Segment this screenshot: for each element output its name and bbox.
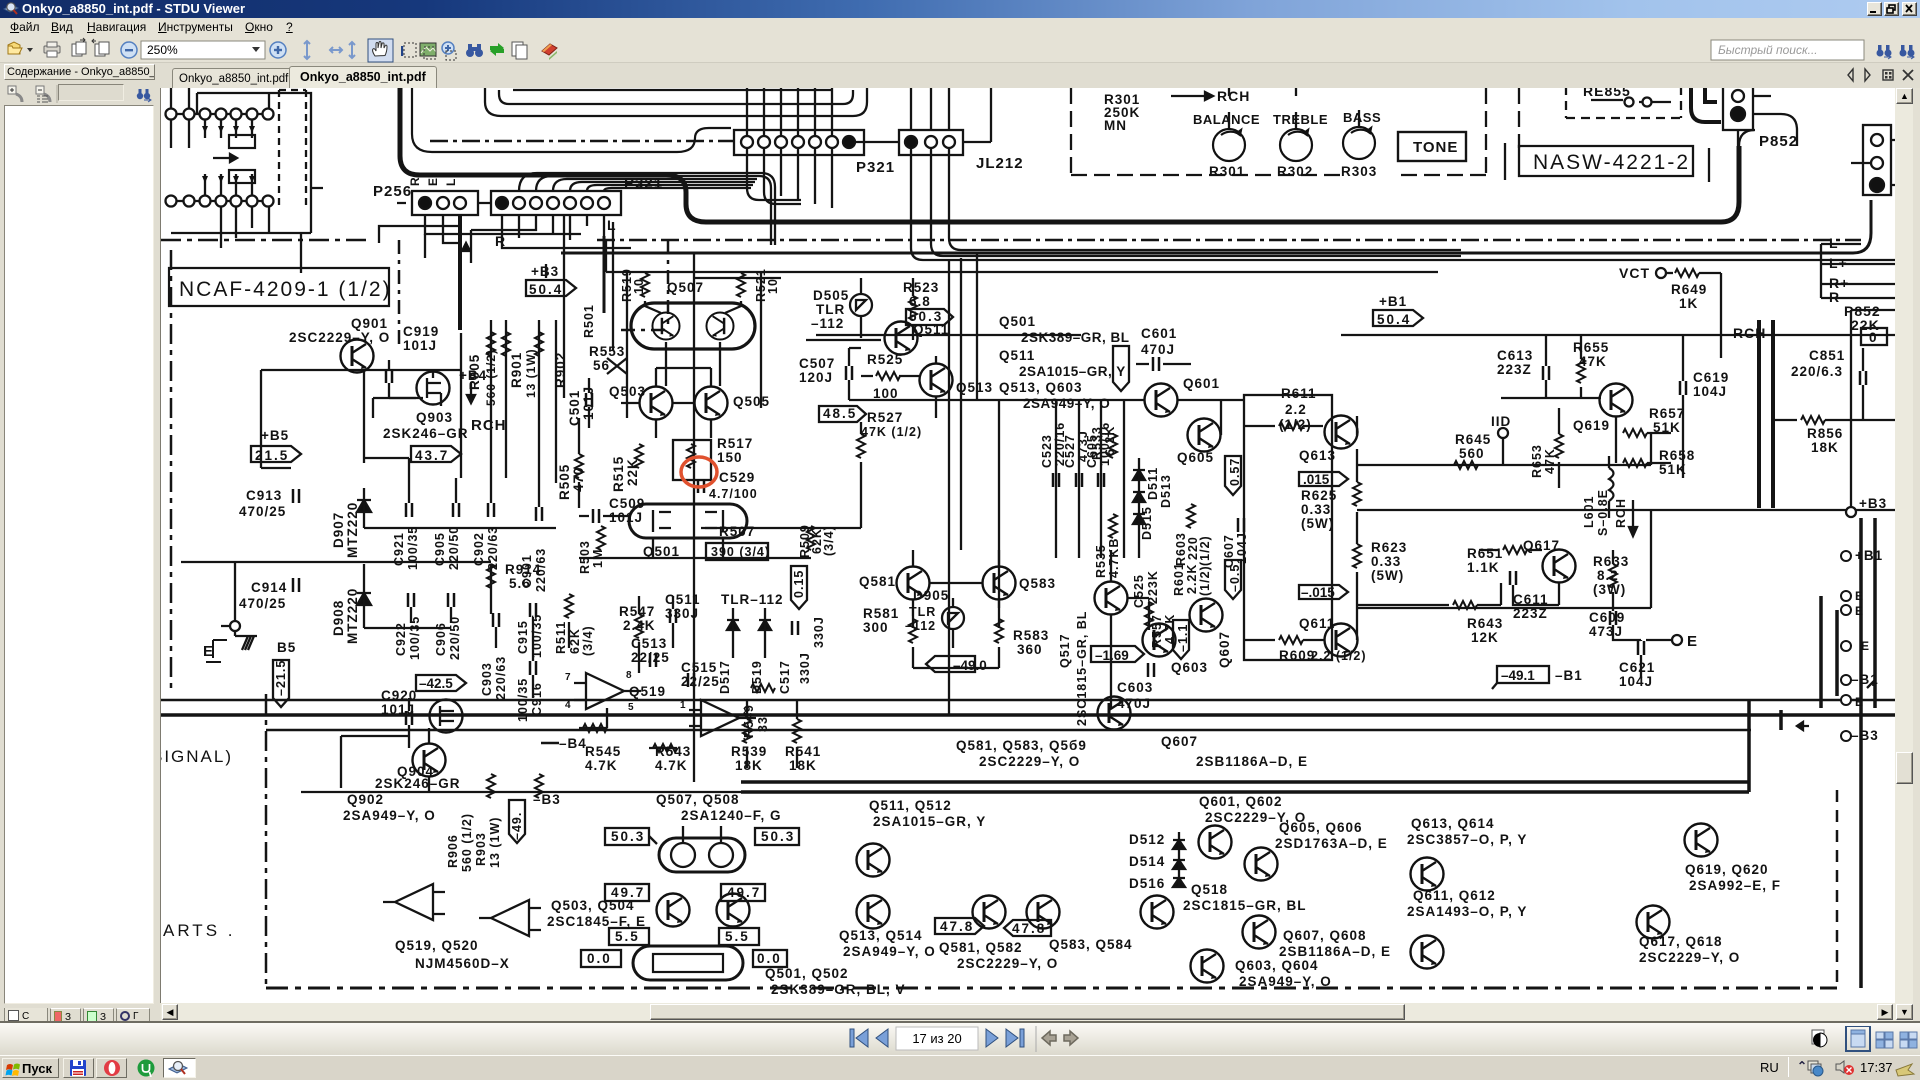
transistor Q903 (FET) <box>417 372 450 405</box>
resistor R549 <box>751 684 775 692</box>
resistor R545 <box>583 724 607 732</box>
svg-text:4.7K: 4.7K <box>1163 614 1177 644</box>
flag -49 vertical <box>509 800 525 843</box>
svg-text:104J: 104J <box>1235 532 1249 564</box>
flag 50.3 legend <box>605 828 649 845</box>
svg-text:101J: 101J <box>609 510 643 525</box>
VCT node and R649 <box>1656 268 1666 278</box>
svg-text:R507: R507 <box>719 524 755 539</box>
diode D517 <box>727 608 739 658</box>
transistor Q611 <box>1325 624 1358 657</box>
svg-text:–B4: –B4 <box>559 736 587 751</box>
svg-text:D516: D516 <box>1129 876 1165 891</box>
resistor R511 <box>565 594 573 618</box>
wire: thick main bus from preamp <box>400 86 1739 222</box>
capacitor C601 <box>1153 357 1159 371</box>
svg-text:VCT: VCT <box>1619 265 1650 281</box>
horizontal scrollbar <box>161 1003 1895 1021</box>
svg-text:E: E <box>1855 604 1864 618</box>
svg-text:Q902: Q902 <box>347 792 384 807</box>
svg-text:C913: C913 <box>246 488 282 503</box>
+B4 arrow <box>467 383 475 403</box>
svg-text:P321: P321 <box>856 159 895 176</box>
flag 1.69 vertical <box>1113 346 1129 391</box>
svg-text:R505: R505 <box>557 464 572 500</box>
capacitor C919 <box>386 369 392 383</box>
transistor Q583 <box>983 567 1016 600</box>
resistor R557 <box>1145 602 1153 626</box>
node +B3 <box>1846 507 1856 517</box>
wire: feedback row <box>806 340 999 608</box>
svg-text:4.7/100: 4.7/100 <box>709 487 758 501</box>
oval Q507 pair <box>631 303 755 349</box>
flag 390 box <box>706 543 768 560</box>
svg-text:Быстрый поиск...: Быстрый поиск... <box>1718 43 1818 57</box>
oval Q501 legend <box>633 946 743 980</box>
transistor Q601 <box>1145 384 1178 417</box>
svg-text:BASS: BASS <box>1343 110 1381 125</box>
transistor Q605 <box>1188 419 1221 452</box>
node circles right edge <box>1841 551 1851 741</box>
resistor R519 <box>641 273 649 297</box>
resistor R527 <box>857 434 865 458</box>
capacitor C523 <box>1053 473 1059 487</box>
diode D519 <box>759 608 771 658</box>
svg-text:C507: C507 <box>799 356 835 371</box>
svg-text:2SC3857–O, P, Y: 2SC3857–O, P, Y <box>1407 832 1527 847</box>
svg-text:R906: R906 <box>446 834 460 868</box>
resistor R914 <box>487 564 495 588</box>
capacitor C914 <box>293 578 299 592</box>
printer <box>44 46 60 53</box>
node E <box>230 621 240 631</box>
thick wires to P852 <box>1691 86 1721 122</box>
legend mid transistors <box>857 844 890 877</box>
svg-text:0.57: 0.57 <box>1228 458 1242 486</box>
svg-text:E: E <box>1861 639 1870 653</box>
svg-text:120J: 120J <box>799 370 833 385</box>
svg-text:Q617, Q618: Q617, Q618 <box>1639 934 1723 949</box>
diode chain D511 D513 D515 <box>1133 458 1145 558</box>
fit icons <box>304 41 355 59</box>
transistor Q607r <box>1190 599 1223 632</box>
resistor R901 <box>502 332 510 356</box>
LED D905 <box>942 607 964 629</box>
resistor R856 <box>1801 416 1825 424</box>
capacitor C619 <box>1680 381 1686 395</box>
vertical scrollbar <box>1895 88 1913 1021</box>
capacitor C902 <box>488 503 494 517</box>
svg-text:L: L <box>444 178 458 186</box>
label RCH box right <box>1759 320 1773 508</box>
svg-text:–B1: –B1 <box>1851 672 1879 687</box>
svg-text:Q603: Q603 <box>1171 660 1208 675</box>
oval Q501 FET pair <box>629 504 747 538</box>
capacitor C517 <box>792 621 798 635</box>
flag 0.15 vertical <box>791 566 807 609</box>
capacitor C913 <box>293 489 299 503</box>
connector P256 <box>412 191 478 215</box>
svg-text:22/25: 22/25 <box>681 674 720 689</box>
svg-text:C515: C515 <box>681 660 717 675</box>
wire: R653 <box>1558 408 1560 488</box>
bottom long rails <box>161 699 1896 701</box>
svg-text:R903: R903 <box>474 832 488 866</box>
svg-text:104J: 104J <box>1619 674 1653 689</box>
resistor R541 <box>793 719 801 743</box>
svg-text:MTZ220: MTZ220 <box>345 588 360 644</box>
svg-text:C501: C501 <box>567 390 582 426</box>
svg-text:.015: .015 <box>1303 472 1330 487</box>
svg-text:SIGNAL): SIGNAL) <box>161 747 233 766</box>
resistor R543 <box>653 744 677 752</box>
svg-text:0.0: 0.0 <box>587 951 612 966</box>
svg-text:+B3: +B3 <box>1859 496 1887 511</box>
svg-text:100/35: 100/35 <box>406 526 420 570</box>
opamp legend 2 <box>479 900 541 936</box>
flag -42.5 <box>416 675 466 691</box>
transistor Q503 <box>640 387 673 420</box>
wire: left ground rail <box>181 562 491 626</box>
svg-text:D517: D517 <box>718 660 732 694</box>
wire: thin bus above <box>412 86 731 152</box>
svg-text:49.7: 49.7 <box>727 885 761 900</box>
svg-text:2SA949–Y, O: 2SA949–Y, O <box>1239 974 1332 989</box>
svg-text:R625: R625 <box>1301 488 1337 503</box>
svg-text:100/35: 100/35 <box>516 678 530 722</box>
flag -49.1 <box>1497 666 1549 683</box>
transistor Q603r <box>1143 624 1176 657</box>
svg-text:2SA1240–F, G: 2SA1240–F, G <box>681 808 782 823</box>
svg-text:–42.5: –42.5 <box>419 676 453 691</box>
svg-text:TLR: TLR <box>816 302 845 317</box>
svg-text:2SA949–Y, O: 2SA949–Y, O <box>1023 396 1110 411</box>
resistor R625 <box>1353 482 1361 506</box>
capacitor C621 <box>1638 641 1644 655</box>
svg-text:2SA1493–O, P, Y: 2SA1493–O, P, Y <box>1407 904 1527 919</box>
right output stage Q617 <box>1543 550 1576 583</box>
right binoculars <box>1877 45 1892 59</box>
svg-text:R533: R533 <box>1090 426 1104 460</box>
svg-text:2SB1186A–D, E: 2SB1186A–D, E <box>1279 944 1391 959</box>
svg-text:D512: D512 <box>1129 832 1165 847</box>
wires from P321 curving right <box>519 173 612 191</box>
svg-text:C920: C920 <box>381 688 417 703</box>
zoom region <box>442 42 454 54</box>
resistor in matrix upper <box>229 135 255 148</box>
svg-text:+B1: +B1 <box>1379 294 1407 309</box>
svg-text:R914: R914 <box>505 562 541 577</box>
svg-text:S–0.8E: S–0.8E <box>1596 489 1610 536</box>
svg-text:250%: 250% <box>147 43 178 57</box>
zoom out <box>121 42 137 58</box>
svg-text:2SB1186A–D, E: 2SB1186A–D, E <box>1196 754 1308 769</box>
svg-text:Q581: Q581 <box>859 574 896 589</box>
svg-text:R645: R645 <box>1455 432 1491 447</box>
svg-text:Q611: Q611 <box>1299 616 1335 631</box>
zoom in <box>270 42 286 58</box>
resistor R581 <box>909 619 917 643</box>
flag 48.5 <box>819 406 866 422</box>
svg-text:2SK246–GR: 2SK246–GR <box>375 776 461 791</box>
svg-text:100/35: 100/35 <box>408 616 422 660</box>
wire: L line down from connector <box>563 215 565 398</box>
flag 0.0 b <box>753 950 787 967</box>
svg-text:Q583: Q583 <box>1019 576 1056 591</box>
svg-text:330J: 330J <box>798 652 812 684</box>
svg-text:5: 5 <box>628 702 635 713</box>
svg-text:2SA1015–GR, Y: 2SA1015–GR, Y <box>873 814 986 829</box>
eraser red <box>542 44 557 55</box>
svg-text:C607: C607 <box>1222 534 1236 568</box>
svg-text:R511: R511 <box>554 621 568 654</box>
svg-text:C915: C915 <box>516 620 530 654</box>
svg-text:2SC2229–Y, O: 2SC2229–Y, O <box>957 956 1058 971</box>
resistor R547 <box>635 614 643 638</box>
svg-text:47.8: 47.8 <box>940 919 974 934</box>
svg-text:Q581, Q582: Q581, Q582 <box>939 940 1023 955</box>
capacitor C515 <box>688 673 694 687</box>
connector P852 <box>1723 85 1753 130</box>
wires up from P321 top <box>747 86 832 136</box>
top nested rect bottoms (display border) <box>485 86 867 116</box>
flag -1.69 <box>1091 646 1144 662</box>
svg-text:JL212: JL212 <box>976 155 1024 172</box>
svg-text:50.3: 50.3 <box>611 829 645 844</box>
capacitor C905 <box>453 503 459 517</box>
svg-text:+B5: +B5 <box>261 428 289 443</box>
resistor R658 <box>1623 459 1647 467</box>
svg-text:Q505: Q505 <box>733 394 770 409</box>
svg-text:–0.5: –0.5 <box>1228 564 1242 592</box>
resistor R505 <box>575 454 583 478</box>
svg-text:0.0: 0.0 <box>757 951 782 966</box>
svg-text:Q513, Q603: Q513, Q603 <box>999 380 1083 395</box>
svg-text:E: E <box>1855 589 1864 603</box>
svg-text:56: 56 <box>593 358 610 373</box>
svg-text:R515: R515 <box>611 456 626 492</box>
svg-text:43.7: 43.7 <box>415 448 449 463</box>
svg-text:6.2K: 6.2K <box>1103 426 1117 456</box>
svg-text:L601: L601 <box>1582 496 1596 529</box>
svg-text:IID: IID <box>1491 414 1511 429</box>
svg-text:Q601, Q602: Q601, Q602 <box>1199 794 1283 809</box>
svg-text:470J: 470J <box>1141 342 1175 357</box>
svg-text:21.5: 21.5 <box>255 448 289 463</box>
resistor R525 <box>876 372 900 380</box>
resistor R633 <box>1609 564 1617 588</box>
svg-text:R653: R653 <box>1530 444 1544 478</box>
transistor Q581 <box>897 567 930 600</box>
flag -49.0 left point <box>926 656 975 672</box>
svg-text:13 (1W): 13 (1W) <box>488 817 502 868</box>
svg-text:360: 360 <box>1017 642 1043 657</box>
svg-text:MTZ220: MTZ220 <box>345 502 360 558</box>
svg-text:2SK389–GR, BL: 2SK389–GR, BL <box>1021 330 1130 345</box>
flag 49.7 <box>605 884 649 901</box>
flag -21.5 vertical <box>273 660 289 707</box>
svg-text:330J: 330J <box>665 606 699 621</box>
svg-text:2.2 (1/2): 2.2 (1/2) <box>1311 649 1367 663</box>
transistor Q511 <box>885 322 918 355</box>
svg-text:2SA949–Y, O: 2SA949–Y, O <box>343 808 436 823</box>
flag 0 box <box>1861 328 1887 345</box>
svg-text:–1.1: –1.1 <box>1176 624 1190 652</box>
svg-text:560 (1/2): 560 (1/2) <box>460 813 474 872</box>
svg-text:–49.: –49. <box>510 812 524 840</box>
big right box outline <box>1851 310 1896 508</box>
svg-text:C609: C609 <box>1589 610 1625 625</box>
svg-text:R901: R901 <box>509 352 524 388</box>
svg-text:R611: R611 <box>1281 386 1317 401</box>
svg-text:R557: R557 <box>1150 614 1164 648</box>
wire: connections <box>364 564 569 698</box>
flag +B1 50.4 right <box>1373 310 1423 326</box>
svg-text:D511: D511 <box>1146 467 1160 500</box>
svg-text:C613: C613 <box>1497 348 1533 363</box>
svg-text:E: E <box>426 177 440 186</box>
transistor Q517 <box>1095 582 1128 615</box>
svg-text:2SC2229–Y, O: 2SC2229–Y, O <box>979 754 1080 769</box>
svg-text:18K: 18K <box>789 758 817 773</box>
capacitor C613 <box>1543 366 1549 380</box>
export pages icons <box>72 44 82 56</box>
svg-text:2SA1015–GR, Y: 2SA1015–GR, Y <box>1019 364 1126 379</box>
capacitor C605 <box>1098 473 1104 487</box>
left panel <box>0 63 160 1026</box>
svg-text:0.33: 0.33 <box>1371 554 1401 569</box>
svg-text:R535: R535 <box>1094 544 1108 578</box>
svg-text:12K: 12K <box>1471 630 1499 645</box>
flag 21.5 <box>251 446 301 462</box>
svg-text:48.5: 48.5 <box>823 406 857 421</box>
svg-text:(3W): (3W) <box>1593 582 1626 597</box>
wire: second bus right <box>561 200 1871 253</box>
svg-text:470: 470 <box>571 466 586 492</box>
resistor R523 <box>909 296 917 320</box>
connector P321 top <box>734 130 864 155</box>
toolbar <box>0 37 1920 63</box>
svg-text:C509: C509 <box>609 496 645 511</box>
svg-text:TLR–112: TLR–112 <box>721 592 784 607</box>
svg-text:(1/2): (1/2) <box>1198 565 1212 596</box>
svg-text:C601: C601 <box>1141 326 1177 341</box>
svg-text:C906: C906 <box>434 622 448 656</box>
thick L wires down <box>458 215 462 330</box>
svg-text:–21.5: –21.5 <box>274 660 288 696</box>
rail to R523 <box>606 240 1438 272</box>
svg-text:1M: 1M <box>591 549 605 568</box>
svg-text:560: 560 <box>1459 446 1485 461</box>
svg-text:R523: R523 <box>903 280 939 295</box>
capacitor C511 <box>670 609 676 623</box>
svg-text:Q903: Q903 <box>416 410 453 425</box>
combo 250% <box>141 41 265 59</box>
svg-text:–1.69: –1.69 <box>1095 648 1129 663</box>
svg-text:Q607: Q607 <box>1217 631 1232 668</box>
svg-text:D505: D505 <box>813 288 849 303</box>
svg-text:E: E <box>1687 633 1698 650</box>
ground symbol <box>235 631 257 650</box>
svg-text:–112: –112 <box>811 316 844 331</box>
svg-text:R623: R623 <box>1371 540 1407 555</box>
left frame dash-dot <box>170 250 173 688</box>
svg-text:330J: 330J <box>812 616 826 648</box>
NCAF label box <box>169 268 389 306</box>
flag 5.5 <box>609 928 649 945</box>
svg-text:R547: R547 <box>619 604 655 619</box>
svg-text:D907: D907 <box>331 512 346 548</box>
svg-text:TREBLE: TREBLE <box>1273 112 1328 127</box>
svg-text:R601: R601 <box>1172 562 1186 596</box>
capacitor C916 <box>530 661 536 675</box>
svg-text:Q517: Q517 <box>1058 633 1072 668</box>
svg-text:R655: R655 <box>1573 340 1609 355</box>
svg-text:104J: 104J <box>1693 384 1727 399</box>
opamp Q519a <box>574 673 641 709</box>
capacitor C607 <box>1238 518 1244 532</box>
svg-text:4.7K: 4.7K <box>585 758 618 773</box>
flag 50.4 <box>526 280 576 296</box>
svg-text:C529: C529 <box>719 470 755 485</box>
D505 LED <box>850 294 872 316</box>
wires under P256/P321 <box>379 215 631 268</box>
wire: q517 nets <box>1111 550 1149 708</box>
svg-text:220/50: 220/50 <box>448 616 462 660</box>
wire: q904 <box>301 698 961 792</box>
svg-text:D514: D514 <box>1129 854 1165 869</box>
capacitor C922 <box>408 593 414 607</box>
svg-text:(1/2): (1/2) <box>1279 417 1312 432</box>
svg-text:2SC1815–GR, BL: 2SC1815–GR, BL <box>1075 611 1089 726</box>
svg-text:101J: 101J <box>581 386 596 420</box>
svg-text:Q583, Q584: Q583, Q584 <box>1049 937 1133 952</box>
svg-text:5.5: 5.5 <box>615 929 640 944</box>
svg-text:R517: R517 <box>717 436 753 451</box>
svg-text:–.015: –.015 <box>1301 585 1335 600</box>
transistor Q904b fet <box>430 700 463 733</box>
wire: matrix to lower area <box>221 188 323 273</box>
wire: left bias rails <box>261 320 556 483</box>
annotation red circle <box>681 457 717 487</box>
resistor R643 <box>1453 601 1477 609</box>
svg-text:Q605: Q605 <box>1177 450 1214 465</box>
svg-text:R905: R905 <box>467 354 482 390</box>
svg-text:2.2K: 2.2K <box>1185 564 1199 594</box>
svg-text:0: 0 <box>1869 330 1878 345</box>
svg-text:22/25: 22/25 <box>631 650 670 665</box>
svg-text:R643: R643 <box>1467 616 1503 631</box>
capacitor C513 <box>650 653 656 667</box>
svg-text:–49.0: –49.0 <box>953 658 987 673</box>
svg-text:17 из 20: 17 из 20 <box>912 1031 961 1046</box>
svg-text:2.4K: 2.4K <box>623 618 656 633</box>
svg-text:R541: R541 <box>785 744 821 759</box>
window title bar <box>0 0 1920 18</box>
flag -0.5 <box>1225 560 1241 599</box>
resistor R903b <box>535 332 543 356</box>
node IID <box>1498 428 1508 438</box>
resistor R535 <box>1109 514 1117 538</box>
transistor Q505 <box>695 387 728 420</box>
svg-text:Q511: Q511 <box>913 322 949 337</box>
wire: opamp nets <box>579 596 677 748</box>
TONE box <box>1398 132 1466 161</box>
svg-text:+B1: +B1 <box>1855 548 1883 563</box>
svg-text:R649: R649 <box>1671 282 1707 297</box>
svg-text:51K: 51K <box>1659 462 1687 477</box>
transistor Q901 <box>341 340 374 373</box>
